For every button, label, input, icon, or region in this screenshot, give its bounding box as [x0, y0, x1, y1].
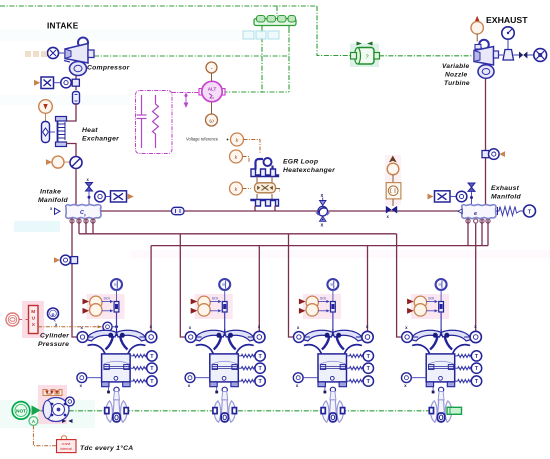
manifold top sensor valve	[86, 183, 93, 187]
crankshaft end load	[447, 407, 462, 414]
svg-text:Manifold: Manifold	[38, 197, 69, 204]
wire: intake runner 4	[397, 234, 402, 337]
wire: heat exchanger to throttle	[66, 144, 76, 157]
faint background jpeg tint stripes	[0, 30, 240, 41]
turbine speed dial	[499, 27, 515, 60]
faint tan ghost row	[25, 51, 47, 57]
main line orifice capsule	[172, 207, 185, 214]
wire: intake runner 2	[180, 234, 185, 337]
alternator	[199, 81, 225, 101]
sensor circle k3	[230, 182, 243, 195]
intake runner comb on engine	[43, 390, 62, 396]
wire: exhaust runner 1	[150, 246, 152, 332]
EGR valve temp circle	[387, 163, 399, 175]
EGR cooler lower core	[251, 200, 279, 207]
svg-text:k: k	[235, 187, 238, 193]
cylinder 1 assembly	[77, 279, 157, 400]
variable nozzle turbine	[474, 40, 499, 79]
intake manifold plenum	[66, 205, 101, 219]
throttle valve mid line	[315, 193, 330, 229]
exhaust outlet valve	[514, 54, 520, 56]
coolant temp circle	[39, 100, 53, 114]
resistor branch	[153, 95, 159, 148]
torque input circle	[206, 62, 217, 73]
EGR valve halo	[385, 155, 401, 205]
turbine inlet temp circle	[475, 16, 480, 22]
svg-text:Manifold: Manifold	[491, 194, 522, 201]
wire: throttle to intake manifold	[75, 169, 77, 206]
turbo shaft coupling	[254, 16, 296, 29]
EGR cooler upper core	[251, 158, 279, 177]
crank throw 2	[213, 400, 237, 423]
crank throw 1	[105, 400, 129, 423]
wire: mux signal link	[38, 326, 102, 328]
electrical circuit loop	[136, 91, 173, 154]
intake manifold pipe orifices	[70, 219, 95, 223]
cylinder1 pressure sensor circle	[48, 308, 59, 319]
svg-text:ALT: ALT	[208, 87, 217, 92]
wire: alternator shaft	[223, 91, 290, 93]
coolant control valve	[42, 122, 50, 143]
ambient outlet circle	[534, 49, 547, 62]
manifold X monitor box	[111, 191, 127, 202]
exhaust back-pressure spring	[496, 207, 523, 216]
speed output circle	[211, 102, 213, 114]
throttle inlet temp circle	[46, 159, 52, 165]
EGR valve controller box	[386, 183, 401, 199]
engine crank train halo	[38, 385, 67, 424]
wire: exhaust runner 4	[475, 219, 477, 332]
downpipe sensor	[482, 149, 505, 160]
angle circle A	[29, 417, 38, 426]
EGR cooler coolant element	[255, 177, 281, 200]
svg-text:NOT: NOT	[16, 408, 26, 413]
manifold inlet arrow	[55, 208, 61, 214]
svg-text:Turbine: Turbine	[444, 80, 470, 87]
wire: crankshaft green line	[41, 410, 448, 412]
svg-text:Voltage reference: Voltage reference	[186, 137, 219, 142]
svg-text:EGR Loop: EGR Loop	[283, 159, 318, 166]
svg-text:Exchanger: Exchanger	[82, 136, 119, 143]
circuit to alternator wire	[172, 92, 202, 94]
wire: main charge line intake to exhaust manifold	[101, 210, 461, 212]
svg-text:Pressure: Pressure	[38, 341, 69, 348]
wire: orifice to heat exchanger	[66, 104, 76, 121]
svg-text:crank: crank	[62, 442, 71, 446]
MUX link to pressure circle	[26, 319, 29, 321]
EGR valve poppet	[386, 206, 392, 214]
svg-text:EXHAUST: EXHAUST	[486, 15, 528, 25]
k2 link	[243, 157, 250, 163]
svg-text:T: T	[528, 209, 532, 215]
svg-text:k: k	[235, 155, 238, 161]
wire: intake runner 3	[289, 234, 294, 337]
wire: compressor outlet	[75, 76, 77, 91]
wire: compressor shaft	[94, 55, 289, 57]
exhaust manifold pipe orifices	[466, 219, 490, 223]
MUX multiplexer	[29, 306, 39, 334]
wire: dyno to turbine	[379, 55, 473, 57]
exhaust manifold inlet valve	[468, 183, 475, 187]
svg-text:U: U	[32, 316, 36, 322]
sensor box row at compressor outlet	[34, 77, 79, 89]
svg-text:Heatexchanger: Heatexchanger	[283, 167, 335, 174]
throttle	[70, 157, 82, 169]
wire: intake runner 1	[72, 219, 77, 337]
exhaust manifold plenum	[458, 205, 496, 219]
svg-text:p: p	[52, 313, 55, 318]
svg-text:?: ?	[366, 55, 369, 61]
svg-text:Compressor: Compressor	[87, 65, 130, 72]
cylinder 3 assembly	[293, 279, 373, 400]
ambient inlet circle	[47, 47, 58, 58]
svg-text:-: -	[211, 66, 213, 72]
wire: bus down to dyno	[317, 6, 351, 56]
wire: turbine downpipe	[485, 78, 487, 204]
wire: exhaust manifold pipes	[467, 219, 469, 246]
svg-text:M: M	[31, 309, 35, 315]
wire: tdc trigger link	[32, 426, 34, 442]
wire: exhaust runner bus	[151, 245, 488, 247]
k1 link	[244, 140, 261, 154]
svg-text:Heat: Heat	[82, 127, 98, 134]
cylinder 2 assembly	[185, 279, 265, 400]
exhaust manifold monitor row	[428, 191, 467, 202]
svg-text:Nozzle: Nozzle	[445, 72, 467, 79]
svg-text:k: k	[236, 138, 239, 144]
svg-text:Cylinder: Cylinder	[40, 333, 69, 340]
wire: coupling to bus	[276, 6, 278, 16]
compressor	[64, 38, 94, 76]
svg-text:ω: ω	[209, 119, 214, 125]
speed arrow	[32, 405, 41, 415]
wire: coupling leg 2	[288, 28, 290, 92]
NOT gate circle	[12, 402, 30, 420]
cylinder pressure plot circle	[6, 313, 19, 326]
svg-text:Variable: Variable	[442, 63, 469, 70]
engine crank train	[43, 398, 69, 422]
TDC trigger box	[61, 436, 66, 441]
switch symbol	[184, 93, 187, 107]
manifold pressure sensor circle	[95, 191, 106, 202]
wire: coupling leg 1	[261, 28, 263, 92]
svg-text:Exhaust: Exhaust	[491, 185, 520, 192]
sensor circle k2	[230, 150, 243, 163]
flow orifice	[73, 92, 80, 105]
svg-text:interval: interval	[60, 447, 72, 451]
cylinder1 pressure tap circle	[103, 322, 112, 331]
wire: intake manifold pipes	[78, 219, 80, 234]
wire: green control bus top	[0, 5, 317, 7]
wire: intake runner bus	[79, 233, 397, 235]
heat exchanger	[56, 117, 67, 147]
tailpipe temp circle	[524, 205, 536, 217]
capacitor branch	[137, 95, 147, 148]
svg-text:T: T	[279, 189, 281, 193]
sensor circle k1	[231, 133, 244, 146]
svg-text:p: p	[84, 213, 86, 217]
wire: exhaust runner 3	[367, 246, 369, 332]
svg-text:Tdc every 1°CA: Tdc every 1°CA	[80, 444, 133, 452]
crank throw 4	[429, 400, 453, 423]
svg-text:INTAKE: INTAKE	[47, 21, 79, 31]
crank throw 3	[321, 400, 345, 423]
svg-text:Intake: Intake	[40, 189, 61, 196]
wire: exhaust runner 2	[258, 246, 260, 332]
svg-text:x: x	[321, 223, 324, 229]
EGR valve actuator arrow	[390, 157, 396, 162]
MUX halo	[22, 301, 44, 338]
k3 link	[243, 188, 252, 190]
ghost blocks row	[243, 31, 279, 39]
engine speed circle	[65, 397, 74, 406]
svg-text:e: e	[474, 211, 477, 217]
engine tdc marks	[62, 419, 66, 423]
cylinder 4 assembly	[402, 279, 482, 400]
dynamometer	[350, 42, 380, 68]
runner 1 mass flow sensor	[54, 255, 78, 265]
